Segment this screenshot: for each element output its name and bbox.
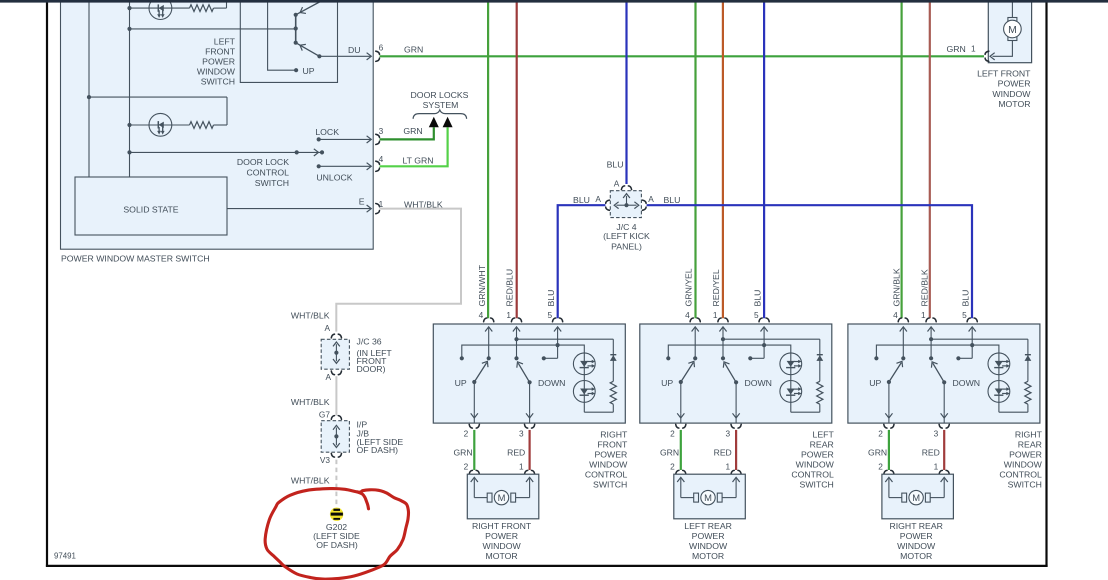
svg-text:LEFT FRONT: LEFT FRONT [977, 68, 1031, 78]
svg-text:J/C 36: J/C 36 [357, 337, 382, 347]
svg-text:LEFT: LEFT [214, 36, 236, 46]
connector pin 5 [967, 318, 977, 322]
svg-text:E: E [359, 197, 365, 207]
svg-text:CONTROL: CONTROL [999, 469, 1042, 479]
left front power window switch inner box [240, 2, 337, 83]
left rear power window control switch box [640, 324, 832, 423]
wire pin5 to down contact [544, 357, 558, 359]
svg-text:2: 2 [878, 429, 883, 439]
wire BLU vertical feed (left rear) [763, 0, 765, 318]
wire line B (left contact to lamps) [876, 345, 999, 412]
svg-text:BLU: BLU [752, 290, 762, 307]
svg-text:A: A [648, 194, 654, 204]
svg-text:1: 1 [519, 462, 524, 472]
resistor (illumination 2) [190, 122, 214, 129]
connector pin 6 [376, 51, 380, 61]
connector pin 3 [939, 424, 949, 428]
node right contact [748, 356, 752, 360]
wire GRN to door locks system [380, 127, 434, 139]
connector pin 1 [718, 318, 728, 322]
wire BLU from J/C4 to right rear switch pin 5 [647, 205, 972, 318]
wire bottom link lamps/resistor [584, 404, 613, 412]
svg-text:1: 1 [934, 462, 939, 472]
svg-text:3: 3 [725, 429, 730, 439]
svg-text:LEFT: LEFT [813, 430, 835, 440]
motor M symbol [1008, 18, 1017, 22]
LED illumination lamp lower [988, 381, 1010, 403]
svg-text:BLU: BLU [960, 290, 970, 307]
svg-text:WINDOW: WINDOW [796, 459, 835, 469]
svg-text:UNLOCK: UNLOCK [316, 173, 352, 183]
svg-text:POWER: POWER [594, 450, 627, 460]
svg-text:4: 4 [479, 310, 484, 320]
svg-text:WINDOW: WINDOW [1004, 459, 1043, 469]
svg-text:WHT/BLK: WHT/BLK [291, 397, 330, 407]
UP switch shaft with down arrow [473, 382, 475, 413]
svg-text:2: 2 [464, 462, 469, 472]
connector motor pin 1 [939, 470, 949, 474]
motor M symbol [902, 493, 907, 502]
connector motor pin 2 [884, 470, 894, 474]
resistor [1025, 381, 1031, 404]
connector J/C4 right (A) [642, 200, 646, 210]
node UP contact [693, 356, 697, 360]
svg-text:1: 1 [713, 310, 718, 320]
door locks system arrow 1 [429, 117, 439, 127]
door lock control switch: LOCK contact [317, 137, 321, 141]
svg-text:OF DASH): OF DASH) [316, 540, 358, 550]
svg-text:RED/BLK: RED/BLK [919, 269, 929, 306]
svg-text:WINDOW: WINDOW [589, 459, 628, 469]
svg-text:G7: G7 [319, 410, 330, 420]
wire: master switch bus 1 (x=89) [88, 2, 90, 177]
wire WHT/BLK between junctions [335, 376, 337, 415]
svg-text:UP: UP [869, 378, 881, 388]
svg-text:GRN: GRN [403, 126, 422, 136]
svg-text:3: 3 [934, 429, 939, 439]
connector pin 2 [884, 424, 894, 428]
svg-text:DU: DU [348, 45, 361, 55]
svg-text:LT GRN: LT GRN [402, 155, 433, 165]
wire RED switch to motor [735, 430, 737, 470]
wire: bus2 to lock/unlock pivot [130, 151, 297, 153]
DOWN switch lever [725, 363, 736, 382]
illumination lamp circuit 2 (lower) [89, 96, 227, 98]
motor internal wire pin1 [943, 479, 945, 498]
wire: master switch bus 2 (x=129.5) [129, 2, 131, 177]
LED illumination lamp upper [573, 353, 595, 375]
svg-text:WHT/BLK: WHT/BLK [291, 310, 330, 320]
UP switch lever [474, 363, 486, 382]
svg-text:A: A [325, 372, 331, 382]
svg-text:PANEL): PANEL) [611, 241, 642, 251]
internal wire pin4 with up arrow [694, 328, 696, 358]
internal wire pin5 with up arrow [763, 328, 765, 358]
svg-text:WINDOW: WINDOW [197, 66, 236, 76]
lock/unlock common arrow [297, 151, 322, 153]
connector pin 4 [484, 318, 494, 322]
svg-text:POWER: POWER [801, 450, 834, 460]
svg-text:1: 1 [971, 43, 976, 53]
svg-text:GRN/YEL: GRN/YEL [683, 268, 693, 306]
svg-text:V3: V3 [320, 455, 331, 465]
wire GRN switch to motor [680, 430, 682, 470]
wire GRN switch to motor [473, 430, 475, 470]
svg-text:1: 1 [725, 462, 730, 472]
wire GRN/WHT vertical feed [487, 0, 489, 318]
svg-text:RIGHT REAR: RIGHT REAR [889, 521, 942, 531]
svg-text:BLU: BLU [573, 195, 590, 205]
left front power window motor box [988, 1, 1031, 63]
right front power window control switch box [433, 324, 625, 423]
internal wire pin5 with up arrow [971, 328, 973, 358]
svg-text:RED: RED [922, 448, 940, 458]
LED illumination lamp lower [780, 381, 802, 403]
resistor (illumination 1) [190, 5, 214, 12]
red pen annotation circling G202 [265, 489, 408, 580]
svg-text:A: A [614, 178, 620, 188]
svg-text:RED/YEL: RED/YEL [711, 269, 721, 306]
svg-text:SWITCH: SWITCH [255, 178, 289, 188]
wire GRN/YEL vertical feed [694, 0, 696, 318]
svg-text:POWER: POWER [202, 56, 235, 66]
node DOWN contact [721, 356, 725, 360]
svg-text:2: 2 [670, 462, 675, 472]
red pen tail stroke [357, 492, 368, 509]
wire line A (pin1 to diode) [517, 338, 614, 340]
connector pin 1 [926, 318, 936, 322]
connector J/C4 left (A) [606, 200, 610, 210]
svg-text:WINDOW: WINDOW [483, 541, 522, 551]
internal wire pin4 with up arrow [488, 328, 490, 358]
connector pin 4 [690, 318, 700, 322]
connector pin 2 [676, 424, 686, 428]
svg-text:SWITCH: SWITCH [201, 76, 235, 86]
svg-text:REAR: REAR [810, 440, 834, 450]
svg-text:CONTROL: CONTROL [791, 469, 834, 479]
DOWN switch shaft with down arrow [735, 382, 737, 413]
connector pin 3 [376, 134, 380, 144]
svg-text:BLU: BLU [663, 195, 680, 205]
wire DU to pin 6 [319, 55, 370, 57]
internal wire pin1 with up arrow [722, 328, 724, 358]
svg-text:GRN: GRN [404, 44, 423, 54]
node on bus2 at lamp2 [127, 123, 131, 127]
diode [610, 354, 616, 356]
svg-text:DOOR LOCK: DOOR LOCK [237, 157, 289, 167]
wire BLU vertical feed to J/C 4 [625, 0, 627, 184]
internal wire pin1 with up arrow [516, 328, 518, 358]
power window master switch box [61, 1, 374, 249]
wire line A (pin1 to diode) [723, 338, 820, 340]
svg-text:DOWN: DOWN [538, 378, 566, 388]
node on bus2 at lamp1 [127, 6, 131, 10]
wire: bus2 to DU switch pole [130, 28, 296, 30]
svg-text:UP: UP [455, 378, 467, 388]
svg-text:POWER: POWER [692, 531, 725, 541]
wire line A (pin1 to diode) [931, 338, 1028, 340]
svg-text:UP: UP [303, 66, 315, 76]
svg-text:DOWN: DOWN [744, 378, 772, 388]
svg-text:REAR: REAR [1018, 440, 1042, 450]
svg-text:(LEFT KICK: (LEFT KICK [603, 231, 650, 241]
motor internal wire top [1011, 1, 1013, 18]
svg-text:6: 6 [379, 42, 384, 52]
J/C 36 junction connector [331, 334, 341, 338]
svg-text:CONTROL: CONTROL [585, 469, 628, 479]
motor internal wire pin1 [529, 479, 531, 498]
svg-text:M: M [704, 492, 712, 503]
svg-text:5: 5 [547, 310, 552, 320]
node UP contact [294, 68, 298, 72]
DOWN switch lever [518, 363, 529, 382]
svg-text:MOTOR: MOTOR [998, 99, 1030, 109]
node right contact [956, 356, 960, 360]
svg-text:POWER: POWER [485, 531, 518, 541]
right front power window motor box [467, 474, 539, 519]
I/P J/B junction connector [331, 416, 341, 420]
svg-text:A: A [324, 323, 330, 333]
resistor [610, 381, 616, 404]
svg-text:97491: 97491 [54, 552, 76, 561]
wire WHT/BLK to ground (dashed) [335, 460, 337, 508]
svg-text:GRN: GRN [660, 448, 679, 458]
svg-text:RED/BLU: RED/BLU [505, 269, 515, 307]
wire GRN/BLK vertical feed [900, 0, 902, 318]
diode [817, 354, 823, 356]
svg-text:GRN: GRN [947, 44, 966, 54]
LED illumination lamp lower [573, 381, 595, 403]
wire GRN switch to motor [888, 430, 890, 470]
connector pin 3 [731, 424, 741, 428]
wire pin5 to down contact [750, 357, 764, 359]
svg-text:5: 5 [962, 310, 967, 320]
wire LT GRN to door locks system [380, 127, 448, 166]
wire bottom link lamps/resistor [791, 404, 820, 412]
svg-text:MOTOR: MOTOR [900, 551, 932, 561]
resistor [817, 381, 823, 404]
internal wire pin5 with up arrow [557, 328, 559, 358]
node pivot [320, 150, 324, 154]
svg-text:2: 2 [670, 429, 675, 439]
connector pin 4 [376, 161, 380, 171]
svg-text:GRN/WHT: GRN/WHT [477, 264, 487, 306]
svg-text:SWITCH: SWITCH [1008, 479, 1042, 489]
svg-text:SWITCH: SWITCH [800, 479, 834, 489]
internal wire pin4 with up arrow [902, 328, 904, 358]
connector motor pin 2 [676, 470, 686, 474]
wire bottom link lamps/resistor [999, 404, 1028, 412]
svg-text:DOOR LOCKS: DOOR LOCKS [411, 90, 469, 100]
svg-text:LOCK: LOCK [315, 127, 339, 137]
wire resistor2 to corner [214, 124, 228, 126]
UP switch shaft with down arrow [888, 382, 890, 413]
svg-text:A: A [595, 194, 601, 204]
diode [1025, 354, 1031, 356]
svg-text:MOTOR: MOTOR [486, 551, 518, 561]
svg-text:UP: UP [661, 378, 673, 388]
svg-text:RED: RED [507, 448, 525, 458]
node UP contact [901, 356, 905, 360]
UP switch lever [681, 363, 693, 382]
connector pin 4 [898, 318, 908, 322]
svg-text:GRN: GRN [453, 448, 472, 458]
motor internal wire to pin 1 [993, 41, 1013, 57]
svg-text:LEFT REAR: LEFT REAR [684, 521, 732, 531]
LED illumination lamp 2 [149, 113, 172, 136]
connector pin 5 [553, 318, 563, 322]
connector pin 5 [759, 318, 769, 322]
node left contact [460, 356, 464, 360]
DU switch lower lever [296, 43, 320, 57]
connector motor pin 1 [731, 470, 741, 474]
svg-text:WHT/BLK: WHT/BLK [291, 475, 330, 485]
connector motor pin 1 [985, 51, 989, 61]
wire: inner vertical to UP contact [268, 2, 297, 71]
svg-text:RIGHT: RIGHT [600, 430, 628, 440]
svg-text:DOOR): DOOR) [357, 364, 386, 374]
ground G202 [330, 508, 343, 521]
connector pin 3 [525, 424, 535, 428]
wire E to pin 1 [227, 208, 371, 210]
svg-text:4: 4 [379, 154, 384, 164]
wire RED/YEL vertical feed [722, 0, 724, 318]
DU switch upper lever [296, 2, 321, 15]
svg-text:M: M [498, 492, 506, 503]
solid state unit [75, 177, 227, 235]
left rear power window motor box [674, 474, 746, 519]
DOWN switch shaft with down arrow [943, 382, 945, 413]
svg-text:GRN/BLK: GRN/BLK [892, 268, 902, 306]
wire WHT/BLK from pin E [336, 209, 461, 332]
svg-text:CONTROL: CONTROL [247, 168, 290, 178]
svg-text:POWER: POWER [900, 531, 933, 541]
DOWN switch lever [933, 363, 944, 382]
node DOWN contact [514, 356, 518, 360]
connector motor pin 1 [525, 470, 535, 474]
node UP contact [487, 356, 491, 360]
svg-text:RED: RED [714, 448, 732, 458]
connector pin 2 [469, 424, 479, 428]
node right contact [542, 356, 546, 360]
node left contact [666, 356, 670, 360]
svg-text:SOLID STATE: SOLID STATE [123, 204, 178, 214]
svg-text:SWITCH: SWITCH [593, 479, 627, 489]
svg-text:WINDOW: WINDOW [689, 541, 728, 551]
svg-text:4: 4 [685, 310, 690, 320]
svg-text:MOTOR: MOTOR [692, 551, 724, 561]
svg-text:1: 1 [506, 310, 511, 320]
svg-text:4: 4 [893, 310, 898, 320]
svg-text:2: 2 [464, 429, 469, 439]
wire RED/BLK vertical feed [929, 0, 931, 318]
svg-text:WINDOW: WINDOW [897, 541, 936, 551]
motor M symbol [487, 493, 492, 502]
wire RED/BLU vertical feed [516, 0, 518, 318]
svg-text:3: 3 [379, 126, 384, 136]
svg-text:1: 1 [921, 310, 926, 320]
internal wire pin1 with up arrow [930, 328, 932, 358]
svg-text:WINDOW: WINDOW [992, 89, 1031, 99]
LED illumination lamp upper [988, 353, 1010, 375]
svg-text:BLU: BLU [546, 290, 556, 307]
connector motor pin 2 [469, 470, 479, 474]
svg-text:FRONT: FRONT [597, 440, 628, 450]
wire line B (left contact to lamps) [462, 345, 585, 412]
UP switch shaft with down arrow [680, 382, 682, 413]
svg-text:SYSTEM: SYSTEM [423, 100, 459, 110]
wire BLU from J/C4 to right front switch pin 5 [558, 205, 606, 318]
svg-text:OF DASH): OF DASH) [357, 445, 399, 455]
node DU pivot [317, 54, 321, 58]
wire RED switch to motor [528, 430, 530, 470]
node DOWN contact [929, 356, 933, 360]
LED illumination lamp 1 [149, 0, 172, 20]
door locks system arrow 2 [443, 117, 453, 127]
svg-text:BLU: BLU [607, 160, 624, 170]
svg-text:M: M [912, 492, 920, 503]
motor internal wire pin2 [680, 479, 682, 498]
svg-text:3: 3 [519, 429, 524, 439]
illumination lamp circuit 1 (top) [130, 7, 190, 9]
connector pin 1 [511, 318, 521, 322]
motor internal wire pin1 [735, 479, 737, 498]
LED illumination lamp upper [780, 353, 802, 375]
wire RED switch to motor [943, 430, 945, 470]
svg-text:POWER WINDOW MASTER SWITCH: POWER WINDOW MASTER SWITCH [61, 254, 210, 264]
door lock control switch: UNLOCK contact [317, 164, 321, 168]
svg-text:FRONT: FRONT [205, 46, 236, 56]
door locks system brace [413, 110, 467, 119]
motor internal wire pin2 [888, 479, 890, 498]
node left contact [874, 356, 878, 360]
UP switch lever [889, 363, 901, 382]
svg-text:POWER: POWER [998, 79, 1031, 89]
right rear power window motor box [882, 474, 954, 519]
svg-text:POWER: POWER [1009, 450, 1042, 460]
svg-text:WHT/BLK: WHT/BLK [404, 199, 443, 209]
DOWN switch shaft with down arrow [529, 382, 531, 413]
svg-text:GRN: GRN [868, 448, 887, 458]
svg-text:DOWN: DOWN [953, 378, 981, 388]
svg-text:5: 5 [754, 310, 759, 320]
motor M symbol [694, 493, 699, 502]
svg-text:RIGHT: RIGHT [1015, 430, 1043, 440]
node on bus1 [87, 95, 91, 99]
DU switch pole [295, 15, 297, 43]
svg-text:2: 2 [878, 462, 883, 472]
right rear power window control switch box [848, 324, 1040, 423]
svg-text:M: M [1008, 25, 1017, 36]
wire GRN (DU to left front motor) [380, 55, 984, 57]
connector pin 1 (E) [376, 204, 380, 214]
svg-text:RIGHT FRONT: RIGHT FRONT [472, 521, 532, 531]
wire line B (left contact to lamps) [668, 345, 791, 412]
wire pin5 to down contact [958, 357, 972, 359]
motor internal wire pin2 [473, 479, 475, 498]
